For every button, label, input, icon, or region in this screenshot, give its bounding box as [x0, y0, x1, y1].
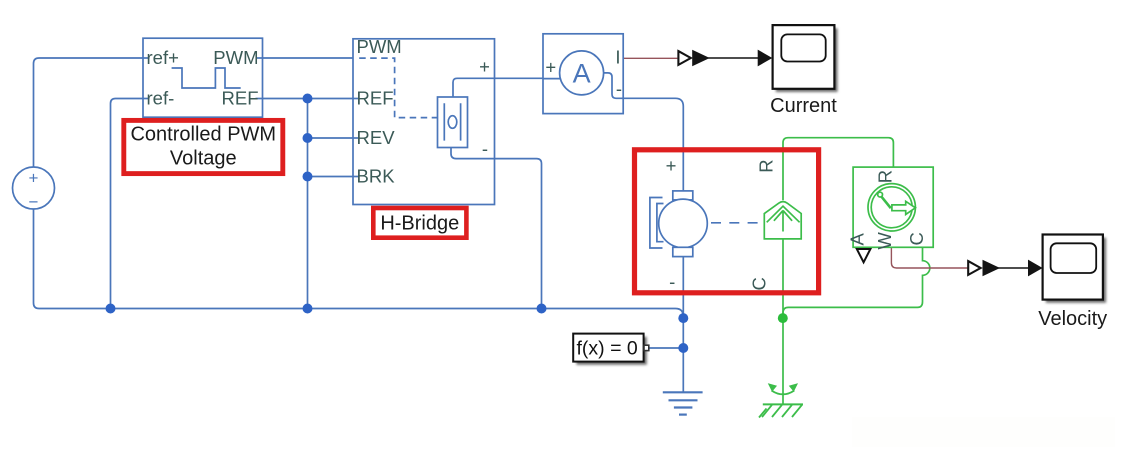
junction dot hbridge-bus — [537, 304, 547, 314]
svg-text:+: + — [666, 155, 677, 176]
port stub REF in — [353, 98, 360, 100]
wire chevron R to sensor R (green) — [783, 138, 893, 201]
DC motor circle — [659, 199, 708, 248]
svg-text:Velocity: Velocity — [1038, 308, 1107, 330]
H-bridge icon bars — [444, 103, 460, 140]
converter triangle hollow (current) — [678, 51, 690, 65]
svg-text:I: I — [615, 47, 620, 68]
svg-text:Current: Current — [770, 95, 837, 117]
mechanical rotational reference — [759, 384, 803, 417]
signal line to Velocity scope — [998, 267, 1029, 269]
arrowhead at Current scope — [758, 50, 773, 67]
sensor inner right wire — [604, 73, 624, 98]
wire REF to H-Bridge — [256, 98, 361, 100]
red annotation box H-Bridge — [373, 208, 466, 238]
svg-text:-: - — [616, 78, 622, 99]
svg-text:REV: REV — [357, 127, 396, 148]
svg-text:PWM: PWM — [357, 36, 402, 57]
DC motor brush bracket outer — [650, 198, 663, 249]
svg-text:+: + — [29, 169, 39, 188]
wire ref- — [111, 99, 149, 309]
block f(x)=0 — [573, 334, 643, 362]
wire REF branch vertical — [307, 99, 309, 309]
svg-text:ref+: ref+ — [147, 47, 179, 68]
junction dot REV — [303, 133, 313, 143]
svg-text:f(x) = 0: f(x) = 0 — [577, 338, 638, 360]
port stub PWM — [256, 57, 263, 59]
svg-text:-: - — [482, 138, 488, 159]
svg-text:PWM: PWM — [213, 47, 258, 68]
svg-text:+: + — [479, 56, 490, 77]
port stub REF — [256, 98, 263, 100]
svg-text:Voltage: Voltage — [170, 148, 237, 170]
H-bridge inner plus wire — [453, 78, 495, 97]
sensor input wire inside — [543, 78, 561, 80]
wire V1 bottom bus — [34, 209, 684, 319]
wire f(x) to node — [649, 347, 684, 349]
wire sensor W signal (PS) — [891, 247, 968, 268]
watermark — [852, 417, 1115, 447]
arrowhead at Velocity scope — [1028, 260, 1043, 277]
junction dot green node — [778, 313, 788, 323]
block current sensor — [543, 34, 623, 114]
clock hand — [882, 197, 891, 208]
svg-text:H-Bridge: H-Bridge — [380, 213, 459, 235]
junction dot REF — [303, 94, 313, 104]
converter arrow filled (velocity) — [983, 260, 1001, 276]
scope Current block — [773, 25, 835, 89]
scope Current screen — [781, 34, 825, 61]
block rotational sensor — [853, 167, 933, 247]
junction dot motor-bus — [678, 313, 688, 323]
unconnected port marker — [857, 249, 871, 262]
svg-text:BRK: BRK — [357, 166, 396, 187]
f(x) port square — [644, 345, 649, 350]
wire sensor C to node with hop (green) — [783, 247, 930, 318]
wire BRK — [308, 176, 361, 178]
chevron arrow stem — [774, 211, 792, 232]
voltage source V1 — [13, 167, 55, 209]
clock hand knob — [878, 192, 883, 197]
svg-text:ref-: ref- — [147, 88, 175, 109]
sensor outer circle — [868, 184, 915, 231]
junction dot BRK — [303, 172, 313, 182]
signal line to Current scope — [708, 57, 759, 59]
svg-text:R: R — [874, 170, 895, 183]
wire PWM to H-Bridge — [256, 57, 354, 59]
svg-text:Controlled PWM: Controlled PWM — [130, 123, 276, 145]
PWM waveform icon — [172, 68, 241, 88]
chevron outline — [764, 202, 801, 239]
block f(x)=0 shadow — [576, 337, 646, 365]
port stub BRK in — [353, 176, 360, 178]
DC motor top terminal — [673, 191, 693, 200]
block Controlled PWM Voltage — [143, 38, 263, 117]
red annotation box Controlled PWM Voltage — [124, 120, 283, 173]
svg-text:C: C — [749, 277, 770, 290]
svg-text:C: C — [906, 232, 927, 245]
hollow arrow right — [892, 201, 916, 214]
port stub ref- — [143, 98, 150, 100]
scope Velocity shadow — [1046, 238, 1106, 303]
DC motor brush bracket inner — [657, 204, 664, 242]
dashed motor to chevron — [711, 222, 764, 224]
current sensor circle — [560, 51, 604, 95]
svg-text:REF: REF — [222, 88, 259, 109]
chevron inner — [767, 206, 800, 222]
junction dot fx node — [678, 343, 688, 353]
svg-text:+: + — [545, 57, 556, 78]
wire motor minus down to ground — [682, 254, 684, 392]
wire current sensor minus to motor — [604, 73, 684, 192]
H-bridge icon box — [438, 97, 468, 148]
wire H-Bridge minus down to bus — [451, 148, 542, 309]
junction dot branch-bus — [303, 304, 313, 314]
svg-text:W: W — [874, 232, 895, 250]
scope Current shadow — [776, 28, 838, 92]
svg-text:−: − — [29, 193, 39, 212]
converter triangle hollow (velocity) — [968, 261, 980, 275]
electrical reference ground — [663, 392, 703, 414]
H-bridge inner minus wire — [451, 148, 495, 159]
port stub ref+ — [143, 57, 150, 59]
H-bridge icon ellipse — [448, 116, 457, 129]
port stub REV in — [353, 137, 360, 139]
wire H-Bridge plus to current sensor — [453, 78, 561, 97]
scope Velocity screen — [1051, 243, 1097, 273]
DC motor bottom terminal — [673, 247, 693, 256]
svg-text:REF: REF — [357, 88, 394, 109]
block H-Bridge — [353, 39, 495, 205]
scope Velocity block — [1043, 235, 1103, 300]
wire REV — [308, 137, 361, 139]
svg-text:R: R — [756, 159, 777, 172]
wire V1 top to ref+ — [34, 58, 144, 168]
junction dot ref- — [106, 304, 116, 314]
wire chevron C down to mechanical reference (green) — [782, 239, 784, 405]
red annotation box motor — [635, 150, 819, 293]
dashed PWM route — [359, 58, 437, 118]
converter arrow filled (current) — [692, 50, 710, 66]
wire current sensor I signal (PS) — [623, 57, 677, 59]
svg-text:-: - — [669, 271, 675, 292]
sensor inner circle — [871, 187, 912, 228]
svg-text:A: A — [573, 59, 591, 89]
svg-text:A: A — [846, 232, 867, 245]
